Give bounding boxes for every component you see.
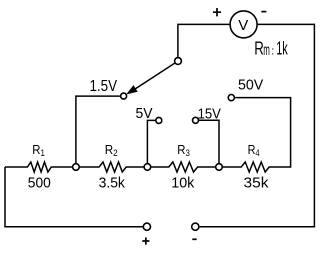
svg-text:5V: 5V	[136, 105, 153, 122]
svg-text:m: m	[263, 42, 270, 59]
svg-text:15V: 15V	[198, 106, 221, 123]
svg-text:500: 500	[28, 174, 51, 191]
svg-text:1k: 1k	[276, 39, 288, 59]
svg-text:1.5V: 1.5V	[90, 78, 118, 95]
svg-text:35k: 35k	[244, 174, 270, 191]
svg-text:50V: 50V	[238, 77, 263, 94]
svg-text:3.5k: 3.5k	[99, 174, 126, 191]
svg-text:10k: 10k	[171, 174, 194, 191]
svg-text:V: V	[238, 17, 248, 34]
svg-text::: :	[271, 46, 274, 58]
